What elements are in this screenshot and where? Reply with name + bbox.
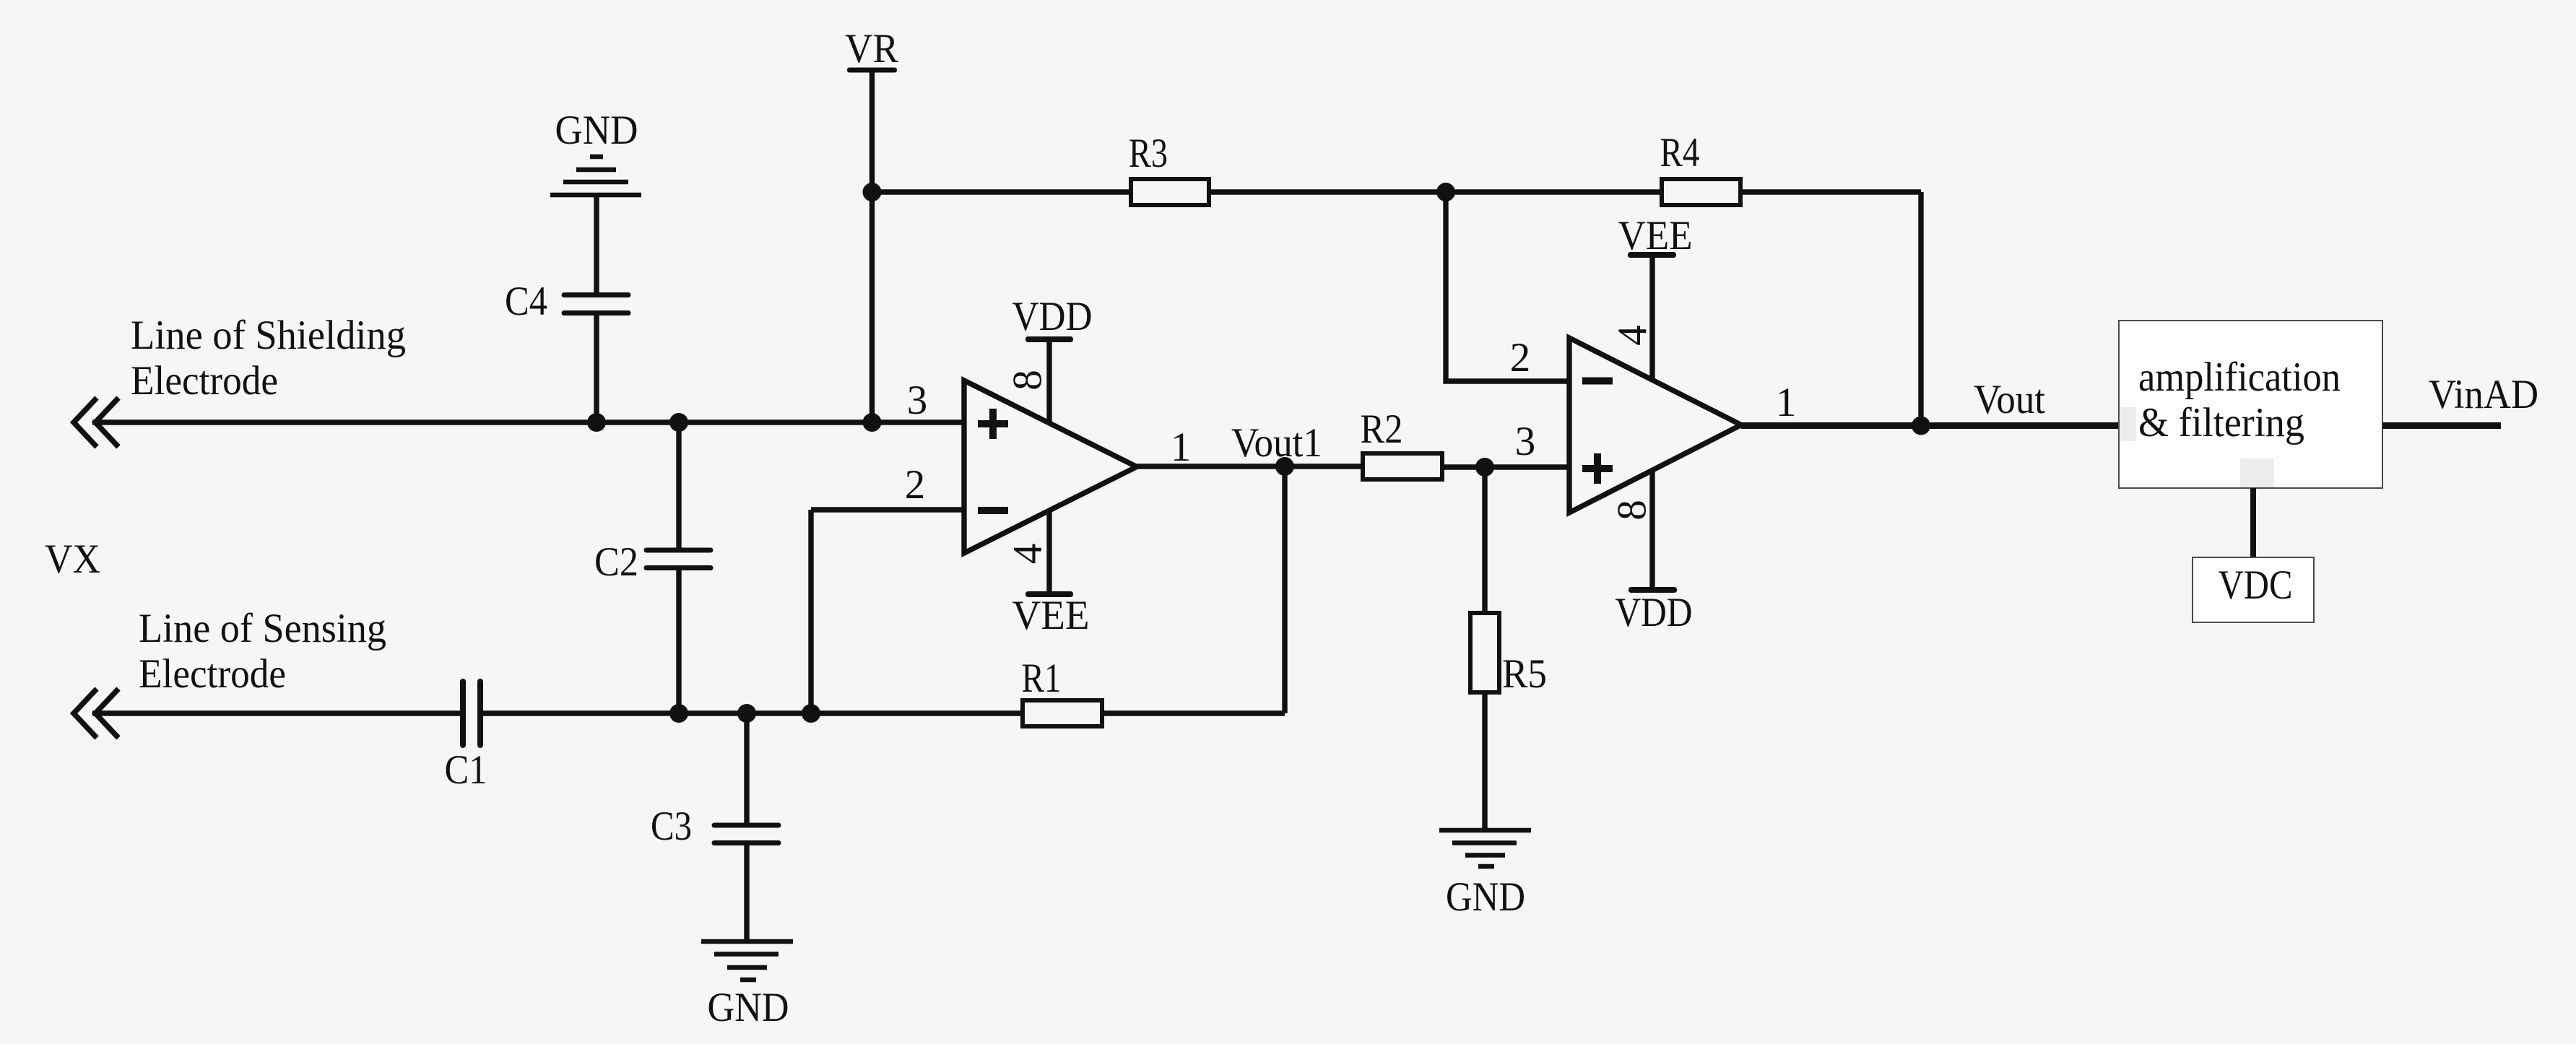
svg-text:4: 4 (1005, 544, 1051, 565)
power VEE (U1 pin 4) (1012, 510, 1090, 638)
capacitor C1 (445, 682, 487, 793)
svg-text:C1: C1 (445, 747, 487, 793)
op-amp U1 (964, 380, 1137, 553)
svg-text:VinAD: VinAD (2429, 372, 2538, 417)
svg-text:C4: C4 (505, 279, 547, 324)
node: Vout1 junction (1275, 457, 1294, 476)
wire: C3 drop (744, 713, 749, 823)
wire: R1 feedback riser to Vout1 (1282, 466, 1287, 713)
svg-text:4: 4 (1610, 325, 1656, 346)
svg-text:1: 1 (1171, 425, 1192, 470)
wire: U1 output to R2 (1137, 464, 1363, 469)
svg-text:VDD: VDD (1616, 590, 1693, 635)
svg-text:3: 3 (1515, 419, 1536, 464)
label: Line of Shielding Electrode (131, 313, 406, 404)
svg-text:VDD: VDD (1012, 294, 1093, 339)
svg-text:R2: R2 (1361, 406, 1403, 452)
svg-text:VEE: VEE (1618, 213, 1693, 258)
svg-text:2: 2 (1510, 335, 1531, 380)
wire: top rail (VR node to R4 right corner) (872, 189, 1922, 194)
resistor R5 (1470, 613, 1547, 697)
resistor R4 (1660, 130, 1741, 205)
op-amp U2 (1569, 338, 1741, 513)
wire: U1 pin 2 stub (811, 507, 964, 512)
wire: feedback riser to U1 pin 2 (808, 510, 813, 713)
svg-text:VDC: VDC (2219, 562, 2293, 608)
svg-text:& filtering: & filtering (2138, 400, 2304, 445)
label: Line of Sensing Electrode (139, 606, 386, 697)
wire: ground to C4 (594, 197, 599, 293)
wire: R2 to U2 pin 3 (1442, 464, 1569, 469)
node: C2 / shielding junction (669, 413, 688, 432)
node: C2 / sensing junction (669, 704, 688, 723)
resistor R3 (1129, 131, 1209, 205)
wire: C4 to shielding line (594, 316, 599, 422)
block: amplification & filtering (2119, 321, 2382, 488)
wire: R5 drop from junction (1482, 467, 1487, 613)
power VDD (U2 pin 8) (1616, 470, 1693, 635)
resistor R2 (1361, 406, 1443, 479)
power VDD (U1 pin 8) (1012, 294, 1093, 423)
svg-text:Vout1: Vout1 (1231, 420, 1322, 466)
svg-text:GND: GND (1446, 874, 1525, 920)
svg-text:VR: VR (845, 26, 898, 71)
svg-text:R1: R1 (1022, 656, 1062, 701)
node: R3-R4 junction (1436, 183, 1455, 201)
svg-text:8: 8 (1610, 500, 1655, 521)
node: VR / top rail junction (863, 183, 882, 201)
svg-text:Vout: Vout (1974, 377, 2045, 422)
svg-text:GND: GND (555, 108, 638, 153)
svg-text:1: 1 (1776, 380, 1797, 425)
wire: R5 to ground (1482, 692, 1487, 830)
wire: R4 output corner vertical (1918, 192, 1923, 426)
wire: line of shielding electrode (left arrow to U1 pin 3) (92, 419, 964, 425)
capacitor C3 (651, 804, 779, 849)
svg-text:3: 3 (907, 378, 928, 423)
svg-text:amplification: amplification (2138, 354, 2341, 400)
svg-text:GND: GND (708, 985, 789, 1030)
wire: C2 to sensing line (676, 570, 681, 713)
node: U1 pin3 / VR junction (863, 413, 882, 432)
node: C4 / shielding junction (587, 413, 606, 432)
svg-text:Line of Sensing: Line of Sensing (139, 606, 386, 651)
svg-text:C3: C3 (651, 804, 692, 849)
svg-text:R5: R5 (1502, 651, 1547, 697)
wire: U2 output to amplification box (1741, 422, 2120, 429)
svg-text:2: 2 (905, 462, 926, 508)
wire: R3/R4 junction drop to U2 pin 2 (1446, 192, 1569, 381)
node: C3 / sensing junction (737, 704, 756, 723)
ground GND (below C3) (701, 941, 793, 1030)
ground GND (below R5) (1439, 830, 1531, 920)
wire: line of sensing electrode (arrow to C1) (92, 710, 460, 715)
resistor R1 (1022, 656, 1103, 726)
wire: amplification box to VinAD (2382, 422, 2501, 429)
wire: C1 to R1 corner (sensing rail) (483, 710, 1285, 715)
capacitor C4 (505, 279, 628, 324)
node: U1 pin2 feedback junction (802, 704, 820, 723)
wire: C3 to ground (744, 845, 749, 941)
svg-text:R4: R4 (1660, 130, 1700, 175)
svg-text:VEE: VEE (1012, 593, 1090, 638)
capacitor C2 (594, 539, 711, 585)
ground GND (above C4, inverted) (550, 108, 641, 195)
svg-text:Electrode: Electrode (139, 651, 286, 697)
node: Vout junction (1912, 417, 1930, 435)
svg-text:R3: R3 (1129, 131, 1168, 176)
svg-text:Line of Shielding: Line of Shielding (131, 313, 406, 358)
power VEE (U2 pin 4) (1618, 213, 1693, 380)
svg-text:C2: C2 (594, 539, 638, 585)
power VR (845, 26, 898, 73)
wire: shielding line to C2 (676, 422, 681, 548)
arrow: sensing electrode double chevron (74, 689, 118, 738)
wire: amplification box to VDC (2250, 488, 2256, 557)
wire: VR vertical drop to top rail and on to U1 pin 3 (869, 72, 875, 422)
svg-text:VX: VX (45, 536, 100, 582)
node: R2 / R5 junction (1475, 458, 1494, 477)
arrow: shielding electrode double chevron (74, 398, 118, 447)
svg-text:8: 8 (1005, 370, 1051, 391)
block: VDC source (2193, 557, 2314, 622)
svg-text:Electrode: Electrode (131, 358, 278, 404)
